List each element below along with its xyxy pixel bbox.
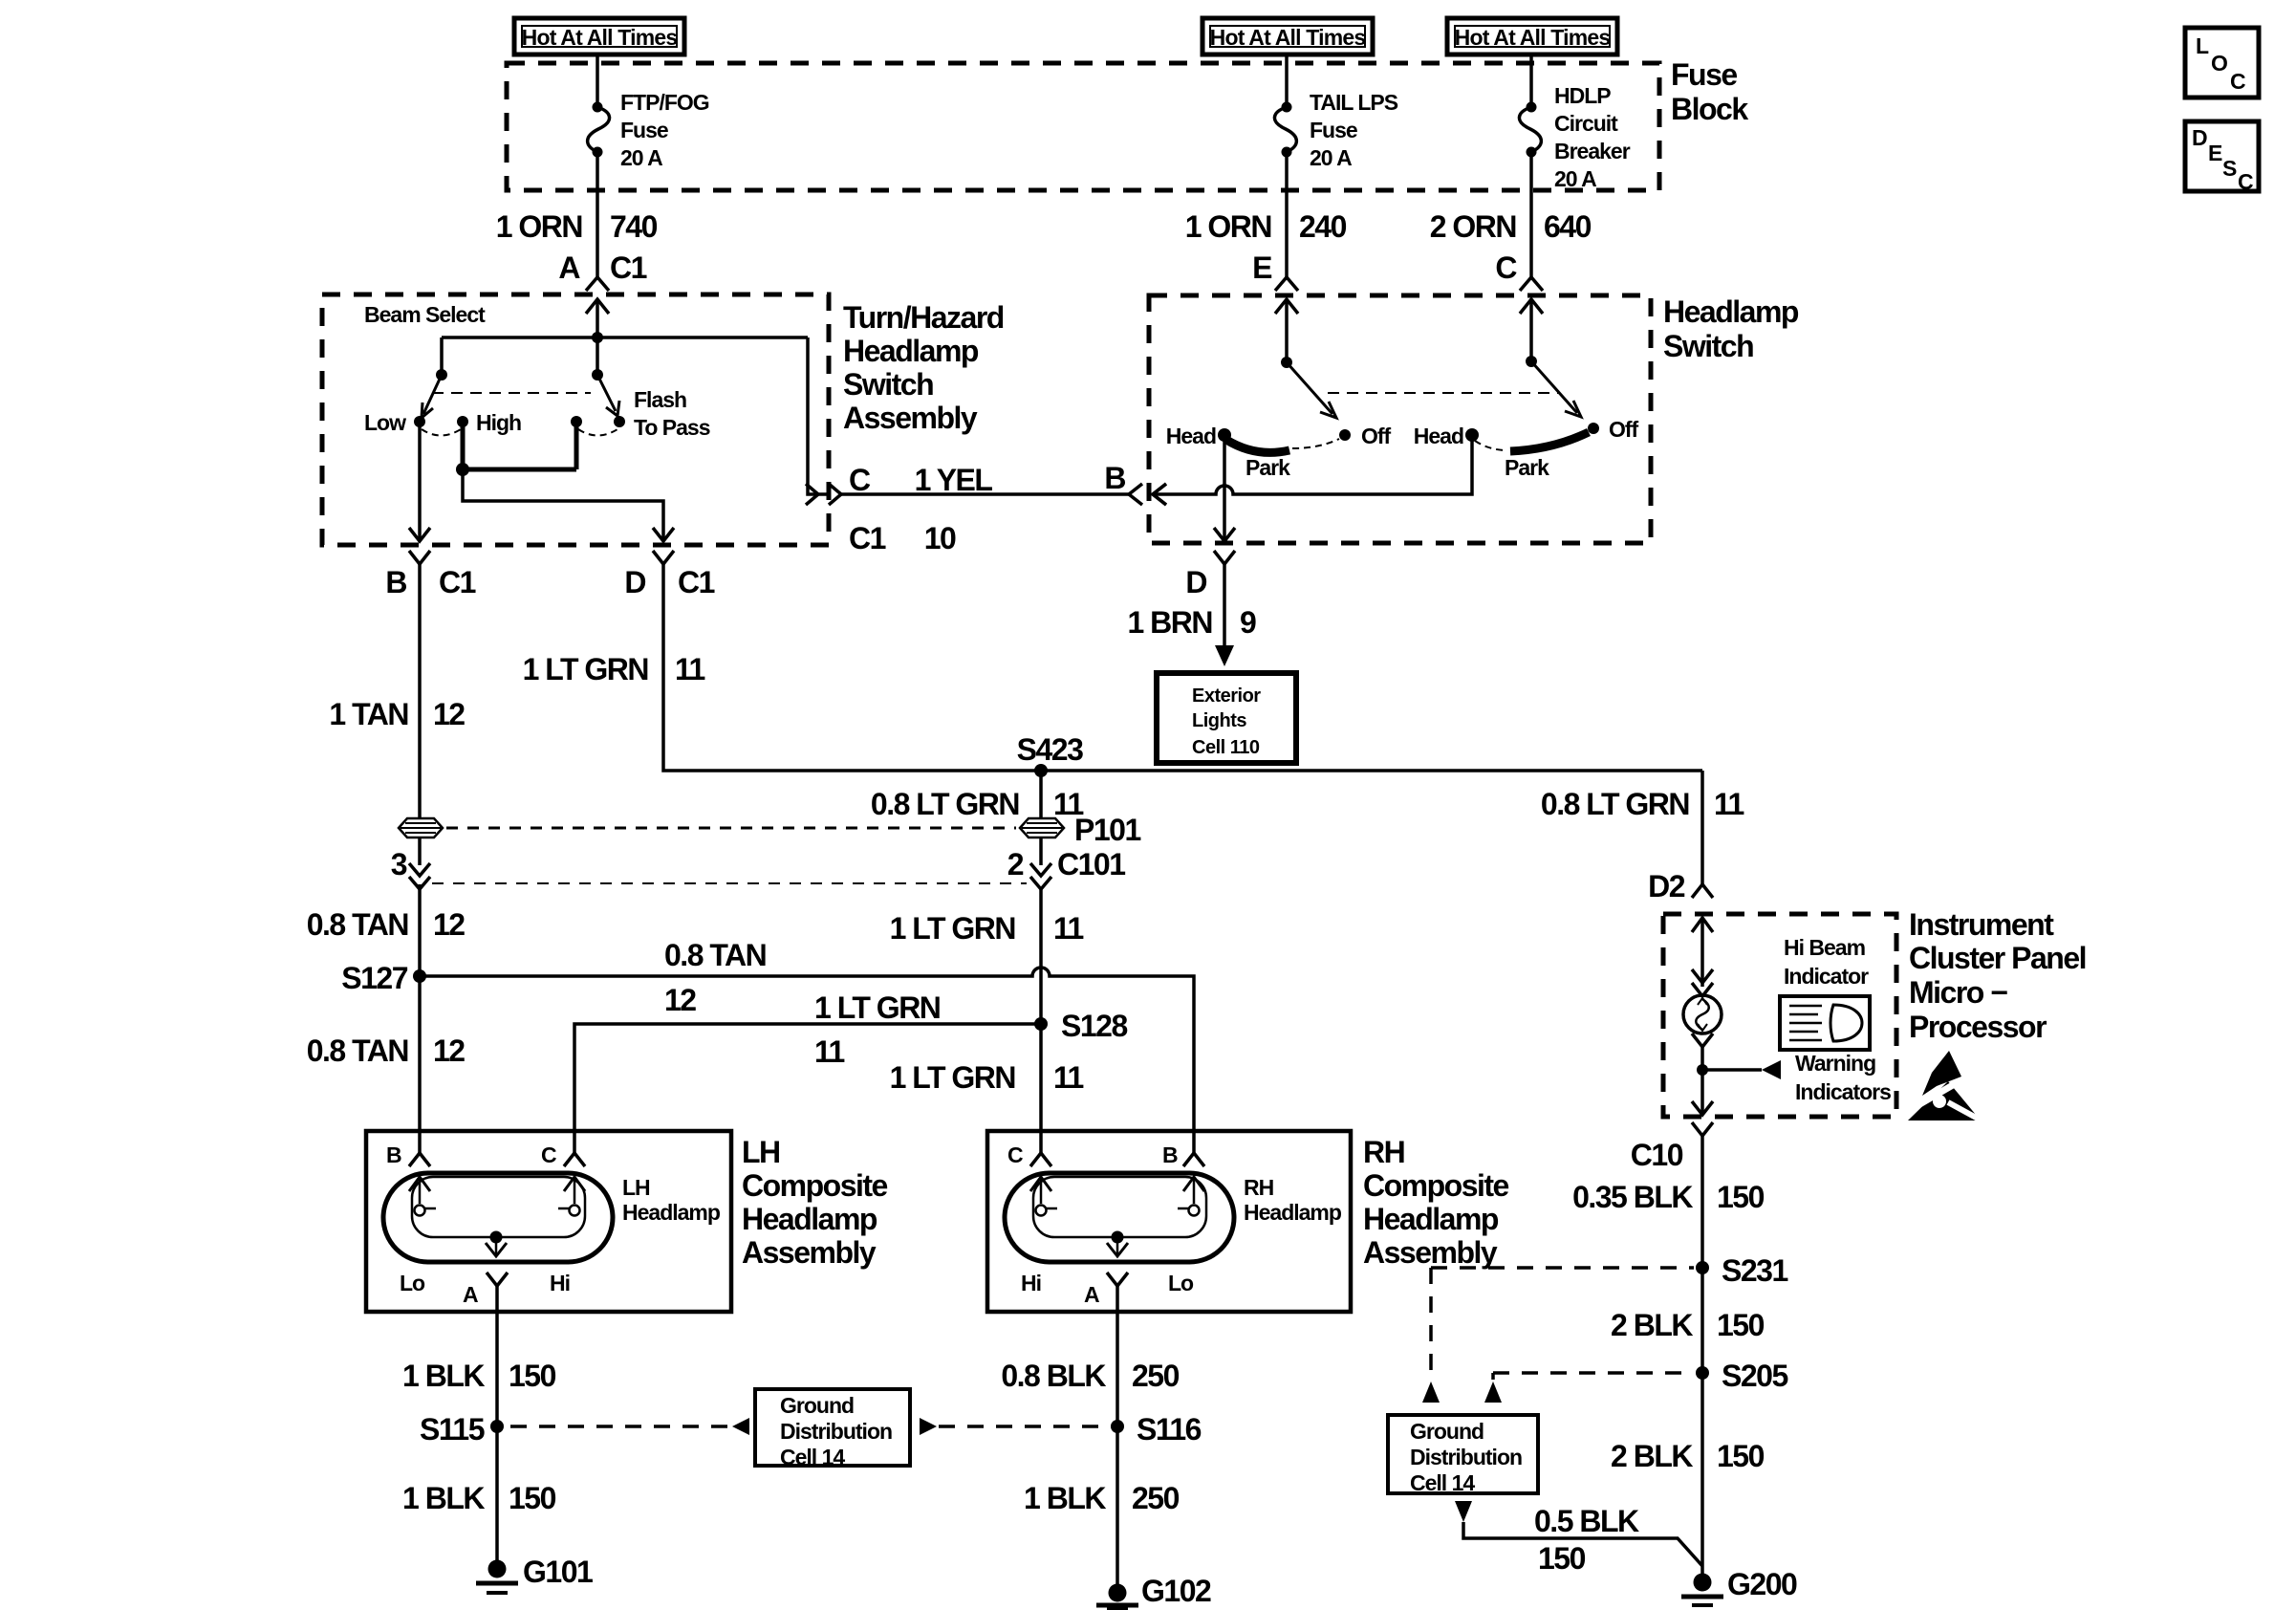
svg-text:Flash: Flash (634, 387, 686, 412)
mechanical link dashed (432, 392, 591, 394)
fuse TAIL LPS 20A (1274, 90, 1397, 170)
exit arrow at C10 (1692, 1101, 1713, 1115)
wire flash output to connector C (808, 337, 829, 494)
wire label 1 LT GRN 11 jumper (814, 990, 940, 1069)
svg-text:12: 12 (433, 907, 465, 942)
svg-text:Headlamp: Headlamp (1363, 1202, 1499, 1236)
svg-text:RH: RH (1363, 1135, 1404, 1169)
beam select switch arm right (flash) (592, 369, 619, 416)
wire to warning indicators (1702, 1068, 1762, 1072)
contact Low (414, 416, 425, 427)
wire label 1 BLK 250 (1024, 1481, 1180, 1515)
svg-text:C1: C1 (849, 521, 886, 555)
svg-text:11: 11 (1053, 911, 1084, 946)
connector fork at RH pin A (1107, 1273, 1128, 1286)
wire label 1 BRN 9 (1127, 605, 1256, 640)
DESC reference box (2185, 121, 2259, 194)
svg-text:C: C (849, 463, 871, 497)
wire lamp to C10 (1700, 1047, 1704, 1115)
node S128 (1034, 1017, 1048, 1031)
svg-text:HDLP: HDLP (1554, 83, 1611, 108)
dashed wire S231 to cluster ground (1431, 1268, 1694, 1380)
wire C10 to G200 (1700, 1136, 1704, 1575)
ground distribution cell 14 box #2 (1388, 1415, 1538, 1495)
wire 1 LT GRN center below C101 (1039, 889, 1043, 1024)
svg-text:1 LT GRN: 1 LT GRN (890, 1060, 1015, 1095)
svg-text:S115: S115 (420, 1412, 485, 1447)
svg-text:0.8 TAN: 0.8 TAN (664, 938, 766, 972)
dashed harness line at C101 (432, 882, 1027, 884)
svg-text:S: S (2222, 156, 2237, 181)
svg-text:11: 11 (1053, 1060, 1084, 1095)
svg-text:C: C (2230, 69, 2245, 94)
LH headlamp bulb outline (383, 1173, 613, 1262)
wire label 0.5 BLK 150 (1534, 1504, 1639, 1576)
svg-text:Park: Park (1245, 455, 1290, 480)
contact Flash To Pass (614, 416, 625, 427)
svg-text:Hi: Hi (550, 1271, 570, 1295)
svg-text:Headlamp: Headlamp (1244, 1200, 1342, 1225)
connector fork below D output (1214, 551, 1235, 564)
thick arc Park-Off right (1510, 432, 1589, 451)
turn/hazard headlamp switch assembly dashed box (322, 294, 829, 545)
svg-text:B: B (1162, 1142, 1178, 1167)
wire label 1 BLK 150 lower (402, 1481, 556, 1515)
svg-text:150: 150 (1717, 1180, 1765, 1214)
wire 0.8 LT GRN down to D2 (1700, 771, 1704, 884)
connector fork at C (1520, 277, 1543, 291)
wire from Hot#2 to fuse F2 (1285, 54, 1289, 107)
svg-text:Lo: Lo (1168, 1271, 1194, 1295)
svg-text:Fuse: Fuse (1671, 57, 1737, 92)
arrow out of ground distribution right (920, 1418, 937, 1435)
svg-text:Low: Low (364, 410, 406, 435)
ground distribution cell 14 box #1 (755, 1389, 910, 1469)
svg-text:LH: LH (742, 1135, 780, 1169)
wire label 2 ORN 640 (1430, 209, 1592, 244)
svg-text:0.8 LT GRN: 0.8 LT GRN (871, 787, 1019, 821)
wire from Hot#1 to fuse F1 (596, 54, 599, 107)
wire 0.8 BLK from RH A to G102 (1116, 1286, 1119, 1586)
svg-text:Cell 14: Cell 14 (780, 1445, 845, 1469)
svg-text:Cluster Panel: Cluster Panel (1909, 941, 2086, 975)
svg-text:C101: C101 (1057, 847, 1125, 881)
connector chevrons C101 center (1030, 863, 1051, 889)
wire label 1 YEL 10 (915, 463, 993, 555)
label C / C1 at output (849, 463, 886, 555)
wire fuse F1 to connector A/C1 (596, 152, 599, 277)
svg-text:Assembly: Assembly (1363, 1235, 1498, 1270)
svg-text:Lo: Lo (400, 1271, 425, 1295)
svg-text:Distribution: Distribution (1410, 1445, 1522, 1469)
arrow to warning indicators (1762, 1060, 1781, 1079)
wire label 0.8 BLK 250 (1001, 1359, 1179, 1393)
svg-text:0.8 BLK: 0.8 BLK (1001, 1359, 1106, 1393)
LH bulb inner filament frame (412, 1177, 585, 1237)
connector fork at LH pin B (409, 1153, 430, 1166)
node feed junction (592, 332, 603, 343)
connector fork at RH pin C (1030, 1153, 1051, 1166)
section label RH Composite Headlamp Assembly (1363, 1135, 1509, 1270)
label Flash To Pass (634, 387, 710, 440)
svg-text:Breaker: Breaker (1554, 139, 1631, 163)
exterior lights cell 110 box (1157, 673, 1296, 763)
wire label 0.35 BLK 150 (1572, 1180, 1765, 1214)
svg-text:20 A: 20 A (1310, 145, 1352, 170)
svg-text:1 BRN: 1 BRN (1127, 605, 1212, 640)
arrow out of ground distribution #2 bottom (1455, 1501, 1472, 1522)
wire label 1 TAN 12 (329, 697, 465, 731)
fuse FTP/FOG 20A (588, 90, 709, 170)
svg-text:High: High (476, 410, 521, 435)
inline connector P101 left lens (399, 818, 443, 838)
svg-text:Hot At All Times: Hot At All Times (522, 25, 678, 50)
node RH common (1112, 1231, 1124, 1244)
svg-text:C: C (2238, 169, 2253, 194)
svg-text:11: 11 (1714, 787, 1744, 821)
svg-text:Switch: Switch (843, 367, 933, 402)
label LH Headlamp (622, 1175, 721, 1225)
svg-text:0.8 LT GRN: 0.8 LT GRN (1541, 787, 1689, 821)
LH common down arrow (486, 1237, 507, 1256)
wire label 0.8 TAN 12 lower (307, 1033, 466, 1068)
svg-text:11: 11 (814, 1034, 845, 1069)
wire below P101 center (1039, 838, 1043, 865)
svg-text:L: L (2196, 33, 2209, 58)
contact High (457, 416, 468, 427)
wire 1 LT GRN from D C1 down and right to S423 (663, 564, 1702, 771)
svg-text:D: D (624, 565, 645, 599)
node warning branch (1697, 1064, 1708, 1076)
RH composite headlamp assembly box (987, 1131, 1351, 1312)
power label box "Hot At All Times" #3 (1447, 18, 1617, 54)
svg-text:250: 250 (1132, 1481, 1180, 1515)
wire label 0.8 TAN 12 jumper (664, 938, 766, 1017)
dashed wire to S116 (939, 1425, 1107, 1428)
ESD symbol (1908, 1051, 1990, 1125)
high beam jumper wire (463, 422, 576, 469)
svg-text:S231: S231 (1722, 1253, 1787, 1288)
svg-text:0.35 BLK: 0.35 BLK (1572, 1180, 1693, 1214)
node LH common (490, 1231, 503, 1244)
node S116 (1111, 1420, 1124, 1433)
svg-text:E: E (2208, 141, 2222, 165)
svg-text:Hi Beam: Hi Beam (1784, 935, 1866, 960)
svg-text:Ground: Ground (1410, 1419, 1484, 1444)
svg-text:150: 150 (1717, 1308, 1765, 1342)
ground G101 (476, 1560, 518, 1594)
wire 0.8 TAN jumper S127 to RH B with hop (420, 968, 1194, 1154)
svg-text:S128: S128 (1061, 1009, 1127, 1043)
svg-text:Fuse: Fuse (620, 118, 668, 142)
svg-text:Instrument: Instrument (1909, 907, 2054, 942)
connector chevrons above lamp (1692, 969, 1713, 996)
svg-text:S423: S423 (1017, 732, 1083, 767)
wire 1 LT GRN S128 to RH C (1039, 1024, 1043, 1154)
exit arrow at D (1214, 528, 1235, 541)
wire 1 BLK from LH A to G101 (495, 1286, 499, 1561)
connector fork at LH pin A (487, 1273, 508, 1286)
wire label 0.8 LT GRN 11 (871, 787, 1084, 821)
svg-text:Headlamp: Headlamp (742, 1202, 877, 1236)
LH composite headlamp assembly box (366, 1131, 731, 1312)
LOC reference box (2185, 28, 2259, 98)
svg-text:FTP/FOG: FTP/FOG (620, 90, 709, 115)
LH low filament arrow (409, 1177, 436, 1216)
wire 1 TAN from B C1 down (418, 564, 422, 818)
RH bulb inner filament frame (1033, 1177, 1206, 1237)
hi beam indicator lamp (1683, 995, 1722, 1033)
svg-text:0.8 TAN: 0.8 TAN (307, 907, 408, 942)
arrow into ground distribution left (732, 1418, 749, 1435)
ground G200 (1681, 1574, 1723, 1606)
wire below P101 left (418, 838, 422, 865)
svg-text:C10: C10 (1631, 1138, 1683, 1172)
wire label 1 BLK 150 (402, 1359, 556, 1393)
section label Turn/Hazard Headlamp Switch Assembly (843, 300, 1004, 435)
dashed arc Park-Off left (1292, 439, 1339, 448)
svg-text:O: O (2211, 51, 2227, 76)
svg-text:Processor: Processor (1909, 1010, 2047, 1044)
wire label 2 BLK 150 lower (1611, 1439, 1765, 1473)
svg-text:C1: C1 (610, 250, 647, 285)
beam select switch arm left (422, 369, 447, 418)
svg-text:Park: Park (1505, 455, 1549, 480)
connector fork below D output (653, 551, 674, 564)
solid arrowhead into exterior lights (1215, 645, 1234, 666)
svg-text:D2: D2 (1648, 869, 1685, 903)
label B C1 (385, 565, 475, 599)
svg-text:150: 150 (509, 1359, 556, 1393)
svg-text:Micro −: Micro − (1909, 975, 2007, 1010)
svg-text:S205: S205 (1722, 1359, 1787, 1393)
svg-text:C1: C1 (439, 565, 476, 599)
instrument cluster dashed box (1663, 914, 1896, 1117)
dashed wire S115 to ground distribution (510, 1425, 732, 1428)
svg-text:1 TAN: 1 TAN (329, 697, 408, 731)
svg-text:2 BLK: 2 BLK (1611, 1439, 1693, 1473)
svg-text:0.5 BLK: 0.5 BLK (1534, 1504, 1639, 1538)
svg-text:1 LT GRN: 1 LT GRN (814, 990, 940, 1025)
entry arrow at C inside box (1520, 299, 1543, 361)
wire 1 LT GRN jumper S128 to LH C (574, 1024, 1041, 1154)
headlamp switch arm right (1526, 356, 1581, 417)
wire label 1 LT GRN 11 lower (890, 1060, 1084, 1095)
fuse block dashed outline (507, 63, 1659, 190)
svg-text:RH: RH (1244, 1175, 1274, 1200)
svg-text:B: B (1104, 461, 1125, 495)
section label Instrument Cluster Panel Micro-Processor (1909, 907, 2086, 1044)
svg-text:Hi: Hi (1021, 1271, 1041, 1295)
svg-text:Cell 14: Cell 14 (1410, 1470, 1475, 1495)
svg-text:Head: Head (1414, 424, 1463, 448)
hi beam indicator icon box (1780, 996, 1870, 1050)
wire from Hot#3 to circuit breaker (1529, 54, 1533, 107)
svg-text:Ground: Ground (780, 1393, 854, 1418)
contact Head right (1465, 428, 1479, 442)
contact Head left (1218, 428, 1231, 442)
svg-text:2 BLK: 2 BLK (1611, 1308, 1693, 1342)
svg-text:Head: Head (1166, 424, 1216, 448)
wire label 1 LT GRN 11 (523, 652, 705, 686)
node high jumper junction (456, 463, 469, 476)
svg-text:1 LT GRN: 1 LT GRN (890, 911, 1015, 946)
connector chevrons C101 left (409, 863, 430, 889)
connector fork at A/C1 (586, 277, 609, 291)
wire label 1 LT GRN 11 center (890, 911, 1084, 946)
svg-text:Headlamp: Headlamp (622, 1200, 721, 1225)
svg-text:640: 640 (1544, 209, 1592, 244)
svg-text:C: C (541, 1142, 556, 1167)
svg-text:D: D (2192, 125, 2207, 150)
svg-text:1 ORN: 1 ORN (1185, 209, 1271, 244)
svg-text:To Pass: To Pass (634, 415, 710, 440)
entry arrow at A inside box (586, 299, 609, 375)
svg-text:P101: P101 (1074, 813, 1140, 847)
svg-text:Turn/Hazard: Turn/Hazard (843, 300, 1004, 335)
mechanical link dashed (1328, 392, 1558, 394)
svg-text:1 BLK: 1 BLK (402, 1359, 485, 1393)
entry chevrons at B (1129, 484, 1166, 505)
power label box "Hot At All Times" #1 (514, 18, 684, 54)
wire label 2 BLK 150 (1611, 1308, 1765, 1342)
svg-text:Headlamp: Headlamp (1663, 294, 1799, 329)
exit arrow at D (653, 528, 674, 541)
svg-text:Off: Off (1361, 424, 1392, 448)
svg-text:1 LT GRN: 1 LT GRN (523, 652, 648, 686)
wire Head right to B output with hop (1153, 435, 1472, 494)
dashed arc Head-Park right (1475, 441, 1507, 450)
node S127 (413, 969, 426, 983)
svg-text:1 BLK: 1 BLK (402, 1481, 485, 1515)
exit chevrons at C (806, 484, 841, 505)
node S115 (490, 1420, 504, 1433)
wire 0.5 BLK to G200 (1463, 1522, 1702, 1566)
RH headlamp bulb outline (1005, 1173, 1234, 1262)
arrow into ground distribution #2 left (1422, 1382, 1440, 1403)
svg-text:G102: G102 (1141, 1574, 1211, 1608)
svg-text:3: 3 (391, 847, 407, 881)
svg-text:1 YEL: 1 YEL (915, 463, 993, 497)
svg-text:S127: S127 (341, 961, 407, 995)
svg-text:B: B (386, 1142, 401, 1167)
svg-text:B: B (385, 565, 406, 599)
section label Headlamp Switch (1663, 294, 1799, 363)
LH high filament arrow (558, 1177, 585, 1216)
svg-text:LH: LH (622, 1175, 650, 1200)
svg-text:A: A (463, 1282, 478, 1307)
svg-text:Exterior: Exterior (1192, 685, 1261, 707)
RH common down arrow (1107, 1237, 1128, 1256)
dashed throw arc Low-High (422, 429, 461, 436)
dashed wire S205 to cluster ground (1493, 1373, 1694, 1380)
wire Head left to D output (1223, 435, 1226, 541)
svg-text:250: 250 (1132, 1359, 1180, 1393)
node S423 (1034, 764, 1048, 777)
wire Low contact to B output (418, 422, 422, 541)
inline connector P101 center lens (1020, 818, 1064, 838)
dashed harness line between P101 lenses (446, 827, 1016, 830)
svg-text:150: 150 (509, 1481, 556, 1515)
exit arrow at B (409, 528, 430, 541)
svg-text:2 ORN: 2 ORN (1430, 209, 1516, 244)
svg-text:Composite: Composite (742, 1168, 888, 1203)
wire label 1 ORN 740 (496, 209, 658, 244)
connector fork at E (1275, 277, 1298, 291)
svg-text:Off: Off (1609, 417, 1639, 442)
svg-text:Warning: Warning (1795, 1051, 1875, 1076)
label RH Headlamp (1244, 1175, 1342, 1225)
svg-text:20 A: 20 A (1554, 166, 1596, 191)
label Warning Indicators (1795, 1051, 1891, 1104)
RH high filament arrow (1030, 1177, 1057, 1216)
section label LH Composite Headlamp Assembly (742, 1135, 888, 1270)
svg-text:C1: C1 (678, 565, 715, 599)
svg-text:Lights: Lights (1192, 710, 1246, 731)
svg-text:12: 12 (433, 1033, 465, 1068)
HDLP circuit breaker 20A (1519, 83, 1630, 191)
RH low filament arrow (1178, 1177, 1204, 1216)
svg-text:Indicators: Indicators (1795, 1079, 1891, 1104)
svg-text:Block: Block (1671, 92, 1748, 126)
dashed throw arc flash (578, 429, 617, 436)
svg-text:G101: G101 (523, 1555, 593, 1589)
label Hi Beam Indicator (1784, 935, 1869, 989)
svg-text:C: C (1007, 1142, 1023, 1167)
svg-text:10: 10 (924, 521, 956, 555)
svg-text:0.8 TAN: 0.8 TAN (307, 1033, 408, 1068)
svg-text:150: 150 (1538, 1541, 1586, 1576)
svg-text:Assembly: Assembly (742, 1235, 877, 1270)
svg-text:Composite: Composite (1363, 1168, 1509, 1203)
entry arrow inside cluster (1692, 918, 1713, 987)
contact Off right (1588, 423, 1599, 434)
svg-text:E: E (1252, 250, 1272, 285)
entry arrow at E inside box (1275, 299, 1298, 362)
wire label 0.8 TAN 12 (307, 907, 466, 942)
svg-text:240: 240 (1299, 209, 1347, 244)
wire breaker to connector C (1529, 152, 1533, 277)
label D C1 (624, 565, 714, 599)
svg-text:G200: G200 (1727, 1567, 1797, 1601)
connector fork below B output (409, 551, 430, 564)
wire to left pivot (440, 337, 444, 375)
svg-text:Assembly: Assembly (843, 401, 978, 435)
connector fork below C10 (1692, 1122, 1713, 1136)
connector fork at LH pin C (564, 1153, 585, 1166)
svg-text:D: D (1185, 565, 1206, 599)
wire label 0.8 LT GRN 11 right (1541, 787, 1744, 821)
wire label 1 ORN 240 (1185, 209, 1347, 244)
thick arc Head-Park left (1226, 440, 1289, 452)
arrow into ground distribution #2 right (1484, 1382, 1502, 1403)
node S231 (1696, 1261, 1709, 1274)
contact Off left (1339, 429, 1351, 441)
svg-text:Hot At All Times: Hot At All Times (1210, 25, 1366, 50)
svg-text:9: 9 (1240, 605, 1256, 640)
svg-text:Circuit: Circuit (1554, 111, 1618, 136)
headlamp switch dashed box (1149, 295, 1651, 543)
svg-text:Distribution: Distribution (780, 1419, 892, 1444)
svg-text:Indicator: Indicator (1784, 964, 1869, 989)
wire high to D output (463, 469, 663, 541)
wire 1 YEL between switches (841, 492, 1129, 496)
svg-text:A: A (1084, 1282, 1099, 1307)
svg-text:Hot At All Times: Hot At All Times (1455, 25, 1611, 50)
svg-text:12: 12 (433, 697, 465, 731)
svg-text:1 ORN: 1 ORN (496, 209, 582, 244)
svg-text:Headlamp: Headlamp (843, 334, 979, 368)
